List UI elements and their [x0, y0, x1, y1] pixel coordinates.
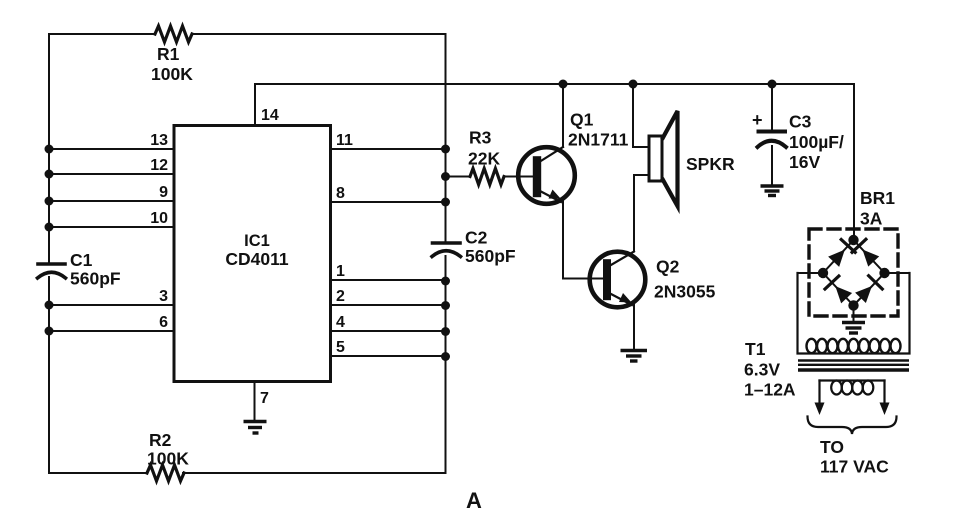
- wire Q2 collector to speaker: [634, 175, 648, 252]
- node bridge right: [879, 268, 889, 278]
- node pin9 bus: [45, 197, 54, 206]
- svg-text:T1: T1: [745, 339, 766, 359]
- svg-text:9: 9: [159, 184, 168, 201]
- svg-text:TO: TO: [820, 437, 844, 457]
- svg-text:8: 8: [336, 185, 345, 202]
- svg-text:10: 10: [150, 210, 168, 227]
- capacitor C1: [38, 250, 121, 289]
- wire left vertical bus upper: [48, 34, 50, 262]
- wire top horizontal right of R1: [192, 33, 446, 35]
- node bridge top: [848, 235, 858, 245]
- ground Q2 emitter: [621, 351, 648, 362]
- transistor Q1 2N1711: [518, 110, 628, 204]
- IC U1 body CD4011: [174, 126, 331, 382]
- diode D3 (bottom node to left node): [825, 276, 854, 305]
- wire VDD down to bridge: [853, 84, 855, 240]
- svg-text:2: 2: [336, 288, 345, 305]
- wire bridge bottom to ground: [853, 306, 855, 322]
- svg-text:100µF/: 100µF/: [789, 132, 844, 152]
- svg-text:22K: 22K: [468, 149, 500, 169]
- svg-text:13: 13: [150, 132, 168, 149]
- pin 11 wire: [331, 132, 446, 149]
- pin 6 wire: [49, 314, 174, 331]
- diode D4 (bottom node to right node): [854, 276, 883, 305]
- transformer T1 primary winding: [820, 381, 885, 395]
- node pin3 bus: [45, 301, 54, 310]
- wire speaker top lead: [633, 84, 648, 147]
- node pin1 bus: [441, 277, 450, 286]
- svg-text:+: +: [752, 110, 763, 130]
- pin 7 stub: [255, 382, 270, 421]
- node R3 bus: [441, 172, 450, 181]
- pin 8 wire: [331, 185, 446, 202]
- node pin2 bus: [441, 301, 450, 310]
- ground IC pin7: [244, 422, 267, 434]
- svg-text:560pF: 560pF: [70, 269, 121, 289]
- wire top horizontal left of R1: [49, 33, 155, 35]
- bridge BR1 dashed box: [809, 188, 898, 316]
- capacitor C2: [432, 228, 516, 267]
- svg-text:R2: R2: [149, 430, 172, 450]
- svg-text:R3: R3: [469, 128, 492, 148]
- node Q1 collector VDD: [559, 80, 568, 89]
- transformer T1 core lines: [798, 361, 909, 371]
- svg-text:2N3055: 2N3055: [654, 282, 716, 302]
- wire bottom horizontal left of R2: [49, 472, 147, 474]
- wire VDD horizontal (pin14 to BR1): [255, 83, 854, 85]
- svg-text:R1: R1: [157, 44, 180, 64]
- svg-text:100K: 100K: [147, 449, 189, 469]
- wire left vertical bus lower: [48, 277, 50, 473]
- transformer T1 secondary winding: [807, 339, 901, 353]
- resistor R2: [147, 430, 189, 481]
- svg-text:6: 6: [159, 314, 168, 331]
- pin 10 wire: [49, 210, 174, 227]
- wire bridge left node out: [798, 272, 824, 274]
- pin 5 wire: [331, 339, 446, 356]
- capacitor C3: [752, 84, 844, 184]
- svg-text:1–12A: 1–12A: [744, 380, 796, 400]
- svg-text:560pF: 560pF: [465, 246, 516, 266]
- svg-text:3A: 3A: [860, 209, 883, 229]
- wire right vertical bus upper: [445, 34, 447, 241]
- svg-text:5: 5: [336, 339, 345, 356]
- ground C3: [761, 186, 784, 196]
- node pin10 bus: [45, 223, 54, 232]
- svg-text:6.3V: 6.3V: [744, 360, 780, 380]
- diode D1 (left node to top node): [827, 240, 856, 269]
- svg-text:CD4011: CD4011: [225, 249, 289, 269]
- svg-text:C2: C2: [465, 228, 488, 248]
- speaker SPKR: [649, 111, 735, 206]
- svg-text:12: 12: [150, 157, 168, 174]
- pin 12 wire: [49, 157, 174, 174]
- pin 2 wire: [331, 288, 446, 305]
- label A: [466, 488, 482, 513]
- resistor R1: [151, 26, 193, 84]
- node bridge bottom: [848, 300, 858, 310]
- bridge diamond wires: [823, 240, 885, 306]
- svg-text:3: 3: [159, 288, 168, 305]
- transformer T1 secondary box: [744, 273, 910, 400]
- wire bridge right node out: [885, 272, 910, 274]
- node pin12 bus: [45, 170, 54, 179]
- svg-text:Q1: Q1: [570, 110, 594, 130]
- node pin4 bus: [441, 327, 450, 336]
- brace TO 117 VAC: [808, 417, 897, 477]
- primary lead left with arrow: [815, 381, 825, 416]
- svg-text:11: 11: [336, 132, 353, 149]
- svg-text:BR1: BR1: [860, 188, 895, 208]
- node pin8 bus: [441, 198, 450, 207]
- node C3 VDD: [768, 80, 777, 89]
- node speaker VDD: [629, 80, 638, 89]
- node bridge left: [818, 268, 828, 278]
- resistor R3: [446, 128, 535, 185]
- svg-text:2N1711: 2N1711: [568, 130, 629, 150]
- svg-text:A: A: [466, 488, 482, 513]
- pin 1 wire: [331, 263, 446, 280]
- wire right vertical bus lower: [445, 256, 447, 473]
- svg-text:C1: C1: [70, 250, 93, 270]
- pin 9 wire: [49, 184, 174, 201]
- svg-text:C3: C3: [789, 112, 812, 132]
- wire bottom horizontal right of R2: [183, 472, 446, 474]
- pin 4 wire: [331, 314, 446, 331]
- pin 13 wire: [49, 132, 174, 149]
- svg-text:Q2: Q2: [656, 257, 680, 277]
- pin 3 wire: [49, 288, 174, 305]
- svg-text:16V: 16V: [789, 152, 820, 172]
- svg-text:117 VAC: 117 VAC: [820, 457, 889, 477]
- primary lead right with arrow: [880, 381, 890, 416]
- node pin5 bus: [441, 352, 450, 361]
- pin 14 stub: [255, 84, 279, 126]
- wire Q1 collector up: [562, 84, 564, 147]
- wire Q2 emitter down: [633, 305, 635, 348]
- svg-text:IC1: IC1: [244, 232, 270, 250]
- svg-text:7: 7: [260, 390, 269, 407]
- svg-text:4: 4: [336, 314, 345, 331]
- diode D2 (right node to top node): [852, 239, 881, 268]
- svg-text:1: 1: [336, 263, 345, 280]
- svg-text:SPKR: SPKR: [686, 154, 735, 174]
- node pin13 bus: [45, 145, 54, 154]
- node pin11 bus: [441, 145, 450, 154]
- transistor Q2 2N3055: [590, 252, 716, 308]
- ground bridge: [842, 323, 865, 334]
- wire Q1 emitter to Q2 base: [563, 201, 604, 279]
- svg-text:14: 14: [261, 107, 279, 124]
- svg-text:100K: 100K: [151, 64, 193, 84]
- node pin6 bus: [45, 327, 54, 336]
